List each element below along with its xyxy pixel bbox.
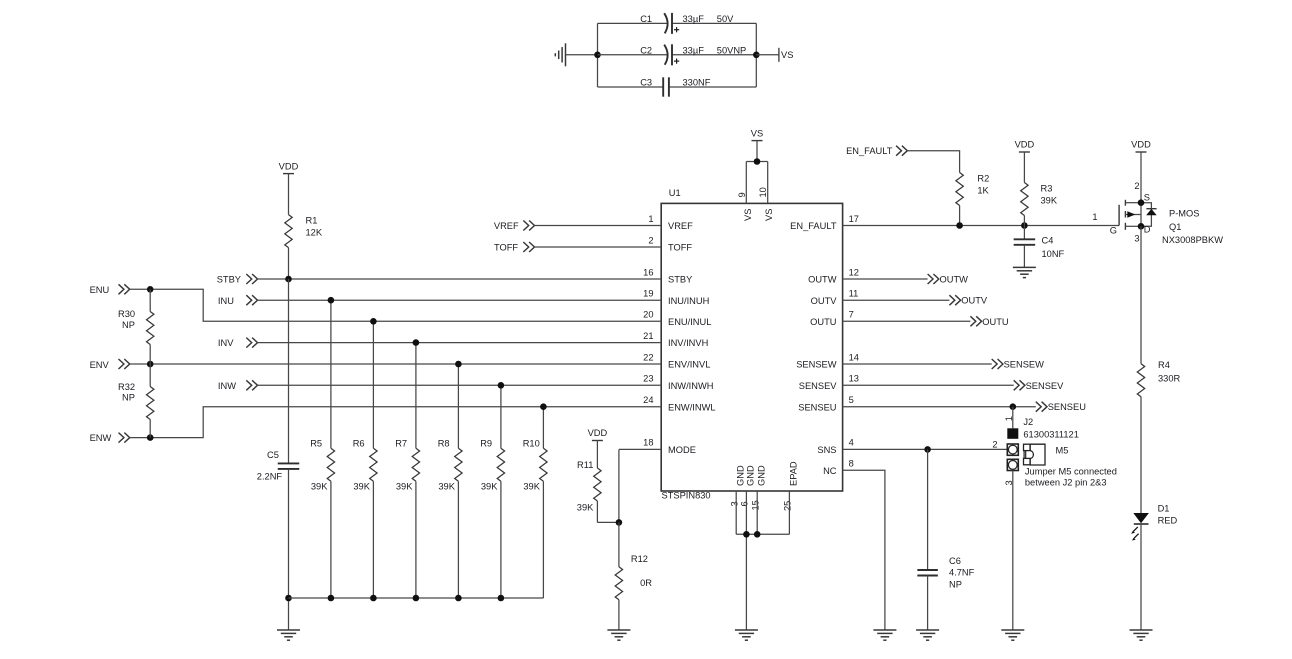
node junction C6 bbox=[924, 446, 931, 453]
resistor R1 12K bbox=[285, 174, 323, 279]
connector ENU bbox=[90, 284, 130, 295]
connector SENSEW bbox=[992, 359, 1044, 370]
node junction bbox=[753, 52, 760, 59]
svg-text:C6: C6 bbox=[949, 556, 961, 566]
node junction bbox=[743, 531, 750, 538]
connector ENV bbox=[90, 359, 130, 370]
op-amp U1 STSPIN830 IC body bbox=[661, 188, 842, 501]
node junction drain bbox=[1138, 223, 1145, 230]
node junction R8 bottom bbox=[455, 595, 462, 602]
node junction STBY/R1 bbox=[285, 276, 292, 283]
svg-text:ENU/INUL: ENU/INUL bbox=[668, 317, 711, 327]
svg-text:1: 1 bbox=[648, 214, 653, 224]
node junction R7 bottom bbox=[413, 595, 420, 602]
svg-text:INU: INU bbox=[218, 296, 234, 306]
svg-text:C1: C1 bbox=[640, 14, 652, 24]
svg-text:SNS: SNS bbox=[817, 445, 836, 455]
wire R1 column down bbox=[288, 279, 290, 463]
svg-text:R30: R30 bbox=[118, 309, 135, 319]
svg-text:between J2 pin 2&3: between J2 pin 2&3 bbox=[1025, 477, 1107, 487]
svg-text:C4: C4 bbox=[1042, 236, 1054, 246]
svg-text:50VNP: 50VNP bbox=[717, 45, 746, 55]
connector ENW bbox=[90, 433, 130, 444]
svg-text:OUTW: OUTW bbox=[940, 275, 969, 285]
power VDD above R3 bbox=[1015, 140, 1035, 152]
svg-text:VS: VS bbox=[781, 50, 793, 60]
connector INW bbox=[218, 380, 258, 391]
power VS above U1 bbox=[751, 128, 763, 161]
svg-text:NX3008PBKW: NX3008PBKW bbox=[1162, 235, 1223, 245]
svg-text:NP: NP bbox=[122, 320, 135, 330]
svg-text:3: 3 bbox=[1134, 234, 1139, 244]
svg-text:5: 5 bbox=[849, 395, 854, 405]
svg-text:SENSEU: SENSEU bbox=[1048, 402, 1086, 412]
svg-text:ENW: ENW bbox=[90, 433, 112, 443]
power VDD above R11 bbox=[588, 428, 608, 440]
U1 VS pin labels rotated pins 9 10 bbox=[737, 187, 774, 221]
svg-text:SENSEW: SENSEW bbox=[796, 360, 837, 370]
svg-text:ENU: ENU bbox=[90, 285, 110, 295]
svg-text:SENSEV: SENSEV bbox=[799, 381, 838, 391]
wire C5 to ground bbox=[288, 469, 290, 630]
svg-text:23: 23 bbox=[643, 374, 653, 384]
node junction ENV bbox=[147, 361, 154, 368]
svg-text:D: D bbox=[1144, 225, 1151, 235]
svg-text:R32: R32 bbox=[118, 382, 135, 392]
connector J2 61300311121 bbox=[992, 416, 1079, 485]
svg-text:MODE: MODE bbox=[668, 445, 696, 455]
connector VREF bbox=[494, 221, 535, 232]
jumper M5 bbox=[1024, 444, 1069, 465]
wire drain down bbox=[1140, 226, 1142, 363]
node junction R2 bbox=[956, 222, 963, 229]
node junction R6 bottom bbox=[370, 595, 377, 602]
connector SENSEV bbox=[1014, 380, 1064, 391]
wire INU pin19 bbox=[257, 299, 661, 301]
capacitor C6 4.7NF NP bbox=[917, 449, 974, 630]
svg-text:39K: 39K bbox=[481, 481, 498, 491]
ground bbox=[1001, 630, 1024, 640]
node junction R9 bottom bbox=[498, 595, 505, 602]
wire bottom bus bbox=[289, 597, 544, 599]
svg-text:33µF: 33µF bbox=[683, 45, 705, 55]
node junction ENW bbox=[147, 434, 154, 441]
wire VDD to source bbox=[1140, 152, 1142, 203]
svg-text:TOFF: TOFF bbox=[668, 243, 692, 253]
svg-text:1: 1 bbox=[1004, 416, 1014, 421]
svg-text:1: 1 bbox=[1092, 212, 1097, 222]
svg-text:RED: RED bbox=[1158, 516, 1178, 526]
node junction R10 top bbox=[540, 403, 547, 410]
svg-text:G: G bbox=[1110, 226, 1117, 236]
connector INU bbox=[218, 295, 258, 306]
node junction bbox=[594, 52, 601, 59]
node junction R5 bottom bbox=[328, 595, 335, 602]
svg-text:VREF: VREF bbox=[494, 221, 519, 231]
resistor R30 NP bbox=[118, 289, 154, 364]
svg-text:330NF: 330NF bbox=[683, 78, 711, 88]
svg-text:19: 19 bbox=[643, 289, 653, 299]
U1 GND EPAD pin labels rotated bbox=[729, 461, 798, 511]
svg-text:Jumper M5 connected: Jumper M5 connected bbox=[1025, 467, 1117, 477]
ground bbox=[735, 630, 758, 640]
U1 right pin names bbox=[790, 221, 837, 476]
svg-text:VREF: VREF bbox=[668, 221, 693, 231]
svg-text:12K: 12K bbox=[306, 228, 323, 238]
wire SENSEV bbox=[843, 384, 1014, 386]
svg-text:INW/INWH: INW/INWH bbox=[668, 381, 713, 391]
svg-text:C5: C5 bbox=[267, 450, 279, 460]
ground bbox=[1013, 267, 1036, 277]
node junction R5 top bbox=[328, 297, 335, 304]
svg-text:4: 4 bbox=[849, 438, 854, 448]
svg-text:39K: 39K bbox=[396, 481, 413, 491]
connector OUTV bbox=[949, 295, 988, 306]
wire SENSEW bbox=[843, 363, 992, 365]
svg-text:R7: R7 bbox=[395, 438, 407, 448]
resistor R12 0R bbox=[615, 522, 652, 630]
svg-text:25: 25 bbox=[783, 501, 793, 511]
svg-text:2: 2 bbox=[1134, 181, 1139, 191]
svg-text:3: 3 bbox=[729, 501, 739, 506]
wire OUTW bbox=[843, 278, 928, 280]
ground bbox=[555, 43, 565, 66]
svg-text:2: 2 bbox=[992, 439, 997, 449]
U1 left pin names bbox=[668, 221, 716, 455]
svg-text:22: 22 bbox=[643, 352, 653, 362]
node junction R11/R12 bbox=[616, 519, 623, 526]
svg-text:TOFF: TOFF bbox=[494, 243, 518, 253]
svg-text:M5: M5 bbox=[1056, 446, 1069, 456]
U1 left pin numbers bbox=[643, 214, 653, 448]
wire J2 pin3 to ground bbox=[1012, 471, 1014, 631]
ground bbox=[873, 630, 896, 640]
svg-text:24: 24 bbox=[643, 395, 653, 405]
wire SENSEU bbox=[843, 406, 1036, 408]
svg-text:OUTW: OUTW bbox=[808, 275, 837, 285]
svg-text:330R: 330R bbox=[1158, 374, 1181, 384]
svg-text:ENV/INVL: ENV/INVL bbox=[668, 360, 710, 370]
svg-text:C3: C3 bbox=[640, 78, 652, 88]
connector OUTU bbox=[970, 316, 1008, 327]
wire bbox=[566, 54, 598, 56]
svg-text:6: 6 bbox=[740, 501, 750, 506]
svg-text:10NF: 10NF bbox=[1042, 249, 1065, 259]
svg-text:R6: R6 bbox=[353, 438, 365, 448]
power VDD above R1 bbox=[279, 161, 299, 173]
U1 right pin numbers bbox=[849, 214, 859, 469]
resistor R2 1K bbox=[956, 173, 990, 226]
svg-text:INW: INW bbox=[218, 381, 236, 391]
wire VREF pin1 bbox=[534, 225, 661, 227]
wire C2 row bbox=[598, 54, 757, 56]
power VDD above Q1 bbox=[1131, 140, 1151, 152]
svg-text:50V: 50V bbox=[717, 14, 734, 24]
connector INV bbox=[218, 338, 258, 349]
capacitor C2 33uF 50VNP bbox=[640, 44, 746, 65]
wire STBY pin16 bbox=[257, 278, 661, 280]
wire EN_FAULT to R2 bbox=[907, 151, 959, 173]
ground bbox=[607, 630, 630, 640]
svg-text:INV/INVH: INV/INVH bbox=[668, 338, 708, 348]
wire bbox=[755, 23, 757, 87]
resistor R5 39K bbox=[310, 300, 334, 598]
node junction source bbox=[1138, 199, 1145, 206]
svg-text:17: 17 bbox=[849, 214, 859, 224]
svg-text:VDD: VDD bbox=[279, 161, 299, 171]
svg-text:2: 2 bbox=[648, 235, 653, 245]
svg-text:GND: GND bbox=[757, 465, 767, 486]
node junction bbox=[754, 158, 761, 165]
wire MODE pin18 bbox=[619, 449, 661, 522]
wire to VS bbox=[756, 54, 779, 56]
svg-text:39K: 39K bbox=[1041, 196, 1058, 206]
svg-text:U1: U1 bbox=[669, 188, 681, 198]
svg-text:EPAD: EPAD bbox=[789, 461, 799, 486]
connector STBY bbox=[217, 274, 258, 285]
wire C1 row bbox=[598, 22, 757, 24]
svg-text:13: 13 bbox=[849, 374, 859, 384]
svg-text:GND: GND bbox=[746, 465, 756, 486]
net label VS bbox=[779, 48, 794, 62]
svg-text:61300311121: 61300311121 bbox=[1023, 430, 1079, 440]
svg-text:SENSEU: SENSEU bbox=[798, 402, 836, 412]
svg-text:R10: R10 bbox=[523, 438, 540, 448]
svg-text:8: 8 bbox=[849, 459, 854, 469]
svg-text:VDD: VDD bbox=[1131, 140, 1151, 150]
svg-text:39K: 39K bbox=[311, 481, 328, 491]
wire SENSEU to J2 pin1 bbox=[1012, 407, 1014, 429]
svg-text:ENW/INWL: ENW/INWL bbox=[668, 402, 716, 412]
ground bbox=[277, 630, 300, 640]
svg-text:NP: NP bbox=[949, 579, 962, 589]
wire LED to ground bbox=[1140, 524, 1142, 630]
wire OUTU bbox=[843, 320, 971, 322]
node junction SENSEU/J2 bbox=[1010, 403, 1017, 410]
note text jumper bbox=[1025, 467, 1117, 488]
svg-text:R5: R5 bbox=[310, 438, 322, 448]
svg-text:R1: R1 bbox=[306, 216, 318, 226]
resistor R32 NP bbox=[118, 364, 154, 438]
svg-text:C2: C2 bbox=[640, 45, 652, 55]
svg-text:VDD: VDD bbox=[1015, 140, 1035, 150]
capacitor C3 330NF bbox=[640, 77, 711, 96]
svg-text:VS: VS bbox=[751, 128, 763, 138]
svg-text:1K: 1K bbox=[977, 186, 989, 196]
svg-text:OUTV: OUTV bbox=[811, 296, 838, 306]
svg-text:GND: GND bbox=[736, 465, 746, 486]
svg-text:39K: 39K bbox=[523, 481, 540, 491]
wire TOFF pin2 bbox=[534, 246, 661, 248]
svg-text:OUTU: OUTU bbox=[810, 317, 836, 327]
svg-text:STBY: STBY bbox=[217, 275, 241, 285]
svg-text:OUTV: OUTV bbox=[961, 296, 988, 306]
connector TOFF bbox=[494, 242, 535, 253]
node junction R6 top bbox=[370, 318, 377, 325]
svg-text:R2: R2 bbox=[977, 174, 989, 184]
svg-text:ENV: ENV bbox=[90, 360, 110, 370]
svg-text:18: 18 bbox=[643, 438, 653, 448]
resistor R7 39K bbox=[395, 343, 419, 598]
svg-text:R11: R11 bbox=[577, 460, 593, 470]
svg-text:STSPIN830: STSPIN830 bbox=[662, 491, 711, 501]
svg-text:15: 15 bbox=[750, 500, 760, 510]
wire C3 row bbox=[598, 86, 757, 88]
svg-text:Q1: Q1 bbox=[1169, 222, 1181, 232]
connector SENSEU bbox=[1036, 402, 1086, 413]
svg-text:11: 11 bbox=[849, 289, 859, 299]
svg-text:9: 9 bbox=[737, 192, 747, 197]
svg-text:20: 20 bbox=[643, 310, 653, 320]
svg-text:OUTU: OUTU bbox=[982, 317, 1008, 327]
svg-text:VDD: VDD bbox=[588, 428, 608, 438]
wire GND pins to bus bbox=[736, 491, 789, 630]
svg-text:R4: R4 bbox=[1158, 360, 1170, 370]
svg-text:0R: 0R bbox=[640, 578, 652, 588]
svg-text:39K: 39K bbox=[438, 481, 455, 491]
svg-text:10: 10 bbox=[758, 187, 768, 197]
svg-text:SENSEW: SENSEW bbox=[1004, 360, 1045, 370]
svg-text:NP: NP bbox=[122, 393, 135, 403]
wire INV pin21 bbox=[257, 342, 661, 344]
svg-text:39K: 39K bbox=[353, 481, 370, 491]
capacitor C5 2.2NF bbox=[257, 450, 299, 481]
svg-text:21: 21 bbox=[643, 331, 653, 341]
capacitor C4 10NF bbox=[1014, 226, 1065, 268]
resistor R8 39K bbox=[438, 364, 462, 598]
svg-text:4.7NF: 4.7NF bbox=[949, 568, 975, 578]
resistor R6 39K bbox=[353, 321, 377, 598]
wire SNS pin4 bbox=[843, 448, 1008, 450]
connector EN_FAULT bbox=[846, 146, 907, 157]
connector OUTW bbox=[928, 274, 969, 285]
wire NC pin8 bbox=[843, 470, 885, 630]
wire bbox=[597, 23, 599, 87]
node junction bbox=[754, 531, 761, 538]
capacitor C1 33uF 50V bbox=[640, 13, 734, 34]
svg-text:R8: R8 bbox=[438, 438, 450, 448]
svg-text:7: 7 bbox=[849, 310, 854, 320]
wire ENW to pin24 bbox=[130, 407, 661, 438]
svg-text:14: 14 bbox=[849, 352, 859, 362]
svg-text:SENSEV: SENSEV bbox=[1026, 381, 1065, 391]
wire EN_FAULT row pin17 bbox=[843, 225, 1120, 227]
svg-text:R12: R12 bbox=[631, 554, 648, 564]
svg-text:2.2NF: 2.2NF bbox=[257, 471, 283, 481]
node junction R9 top bbox=[498, 382, 505, 389]
resistor R4 330R bbox=[1137, 360, 1180, 513]
wire INW pin23 bbox=[257, 384, 661, 386]
svg-text:INV: INV bbox=[218, 338, 234, 348]
svg-text:VS: VS bbox=[743, 209, 753, 221]
svg-text:P-MOS: P-MOS bbox=[1169, 209, 1199, 219]
wire OUTV bbox=[843, 299, 950, 301]
node junction ENU bbox=[147, 286, 154, 293]
ground bbox=[916, 630, 939, 640]
wire ENU to pin20 bbox=[130, 289, 661, 321]
resistor R3 39K bbox=[1021, 152, 1058, 226]
svg-text:INU/INUH: INU/INUH bbox=[668, 296, 709, 306]
resistor R9 39K bbox=[480, 385, 504, 598]
svg-text:STBY: STBY bbox=[668, 275, 692, 285]
diode D1 RED LED bbox=[1131, 503, 1177, 540]
ground bbox=[1130, 630, 1153, 640]
svg-text:NC: NC bbox=[823, 466, 837, 476]
svg-text:16: 16 bbox=[643, 267, 653, 277]
transistor Q1 P-MOS NX3008PBKW bbox=[1092, 181, 1223, 245]
svg-text:EN_FAULT: EN_FAULT bbox=[790, 221, 837, 231]
svg-text:S: S bbox=[1144, 193, 1150, 203]
svg-text:D1: D1 bbox=[1158, 503, 1170, 513]
wire VS bracket pins 9 10 bbox=[746, 162, 767, 204]
svg-text:VS: VS bbox=[764, 209, 774, 221]
svg-text:R9: R9 bbox=[480, 438, 492, 448]
node junction bus bbox=[285, 595, 292, 602]
svg-text:39K: 39K bbox=[577, 502, 594, 512]
node junction R3 bbox=[1021, 222, 1028, 229]
resistor R11 39K bbox=[577, 441, 619, 523]
svg-text:J2: J2 bbox=[1023, 417, 1033, 427]
svg-text:R3: R3 bbox=[1041, 184, 1053, 194]
node junction R7 top bbox=[413, 339, 420, 346]
wire ENV pin22 bbox=[130, 363, 661, 365]
node junction R8 top bbox=[455, 361, 462, 368]
svg-text:12: 12 bbox=[849, 267, 859, 277]
resistor R10 39K bbox=[523, 407, 547, 598]
svg-text:EN_FAULT: EN_FAULT bbox=[846, 146, 893, 156]
svg-text:33µF: 33µF bbox=[683, 14, 705, 24]
